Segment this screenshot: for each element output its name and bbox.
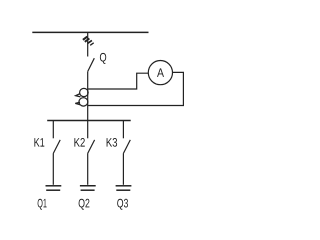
top busbar bbox=[32, 31, 148, 33]
switch K1 blade bbox=[53, 140, 60, 154]
drawout hatch marks on feeder bbox=[83, 37, 94, 46]
wire feeder mid segment bbox=[87, 72, 89, 121]
label Q3 bbox=[117, 199, 128, 210]
wire branch 1 bbox=[52, 153, 54, 185]
wire branch 2 bbox=[87, 153, 89, 185]
switch K1 stub bbox=[52, 121, 54, 139]
label K3 bbox=[107, 138, 118, 147]
label A bbox=[157, 68, 164, 77]
wire CT top to ammeter bbox=[88, 73, 149, 89]
breaker Q blade bbox=[88, 58, 95, 71]
label Q1 bbox=[38, 199, 47, 210]
lower busbar bbox=[47, 120, 131, 122]
ammeter A circle bbox=[148, 61, 172, 85]
wire feeder upper segment bbox=[87, 32, 89, 56]
capacitor Q1 plates bbox=[46, 185, 62, 187]
capacitor Q2 plates bbox=[80, 185, 96, 187]
switch K2 stub bbox=[87, 121, 89, 139]
CT coil loop 2 bbox=[79, 98, 88, 106]
switch K3 blade bbox=[123, 140, 130, 154]
wire ammeter right return bbox=[88, 72, 184, 105]
wire branch 3 bbox=[122, 153, 124, 185]
label Q bbox=[100, 53, 106, 64]
switch K2 blade bbox=[88, 140, 95, 154]
label Q2 bbox=[79, 199, 90, 210]
CT coil loop 1 bbox=[80, 88, 89, 96]
CT coil loop 1 tail bbox=[76, 94, 81, 97]
capacitor Q3 plates bbox=[116, 185, 132, 187]
label K1 bbox=[34, 138, 44, 147]
label K2 bbox=[74, 138, 84, 147]
switch K3 stub bbox=[122, 121, 124, 139]
CT coil loop 2 tail bbox=[75, 102, 80, 105]
